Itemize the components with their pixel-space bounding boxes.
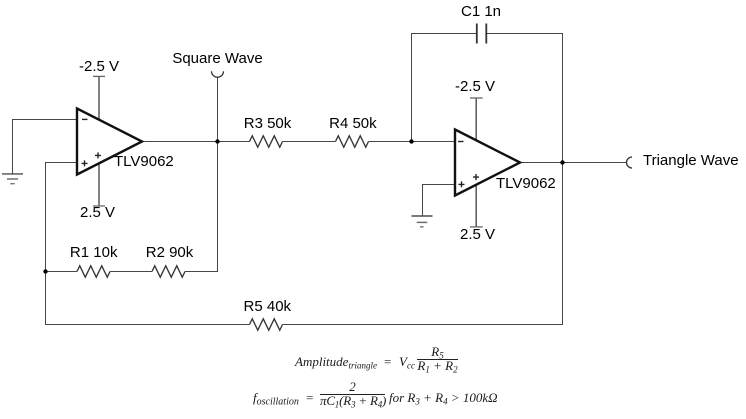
label -2.5 V op1 xyxy=(79,59,119,74)
label R5 40k xyxy=(244,299,292,314)
junction dot output node xyxy=(560,160,564,164)
supply pin op2 2.5V xyxy=(470,185,483,227)
resistor R5 xyxy=(250,319,283,330)
label R2 90k xyxy=(146,245,194,260)
wire R5 to output node xyxy=(283,163,563,325)
supply pin op2 -2.5V xyxy=(470,98,483,141)
op-amp U1 plus supply marker xyxy=(95,152,101,158)
wire node to R3 xyxy=(218,141,250,143)
junction dot square-wave node xyxy=(215,139,219,143)
op-amp U2 minus marker xyxy=(458,141,464,143)
capacitor C1 xyxy=(477,24,487,44)
label R3 50k xyxy=(244,116,292,131)
wire op1 output to square-wave node xyxy=(142,141,218,143)
junction dot node B xyxy=(409,139,413,143)
wire node A down and along bottom to R5 xyxy=(46,272,250,325)
formula amplitude xyxy=(295,355,377,368)
op-amp U2 plus input marker xyxy=(459,181,465,187)
wire R4 to node B xyxy=(369,141,412,143)
wire op2 output to terminal xyxy=(520,162,627,164)
ground G2 xyxy=(412,216,433,227)
supply pin op1 2.5V xyxy=(93,163,105,206)
op-amp U2 plus supply marker xyxy=(473,174,479,180)
wire node B up to C1 left plate xyxy=(412,34,477,142)
resistor R4 xyxy=(336,136,369,147)
label Square Wave xyxy=(172,51,262,66)
ground G1 xyxy=(2,174,23,184)
label TLV9062 op1 xyxy=(114,154,174,169)
label 2.5 V op2 xyxy=(460,227,495,242)
label R4 50k xyxy=(329,116,377,131)
label -2.5 V op2 xyxy=(455,79,495,94)
terminal Square Wave xyxy=(212,71,224,77)
formula frequency xyxy=(253,391,299,404)
wire op2 non-inverting input to ground G2 xyxy=(423,185,456,216)
op-amp U1 xyxy=(77,109,142,175)
resistor R3 xyxy=(250,136,283,147)
resistor R1 xyxy=(77,266,110,277)
label 2.5 V op1 xyxy=(80,205,115,220)
op-amp U2 xyxy=(455,130,520,196)
wire op1 inverting input to ground stem xyxy=(13,120,78,174)
op-amp U1 plus input marker xyxy=(82,160,88,166)
wire square-wave vertical xyxy=(185,77,218,271)
wire R1 to R2 xyxy=(110,271,152,273)
wire node B to op2 inverting input xyxy=(412,141,456,143)
terminal Triangle Wave xyxy=(627,157,633,168)
label TLV9062 op2 xyxy=(496,176,556,191)
junction dot node A xyxy=(43,269,47,273)
wire op1 non-inverting input down to node A xyxy=(46,163,78,272)
label Triangle Wave xyxy=(643,153,739,168)
wire node A to R1 xyxy=(46,271,78,273)
label C1 1n xyxy=(461,4,501,19)
label R1 10k xyxy=(70,245,118,260)
wire R3 to R4 xyxy=(283,141,336,143)
resistor R2 xyxy=(152,266,185,277)
op-amp U1 minus marker xyxy=(82,118,88,120)
supply pin op1 -2.5V xyxy=(93,76,105,120)
wire C1 right plate to output node xyxy=(487,34,563,163)
